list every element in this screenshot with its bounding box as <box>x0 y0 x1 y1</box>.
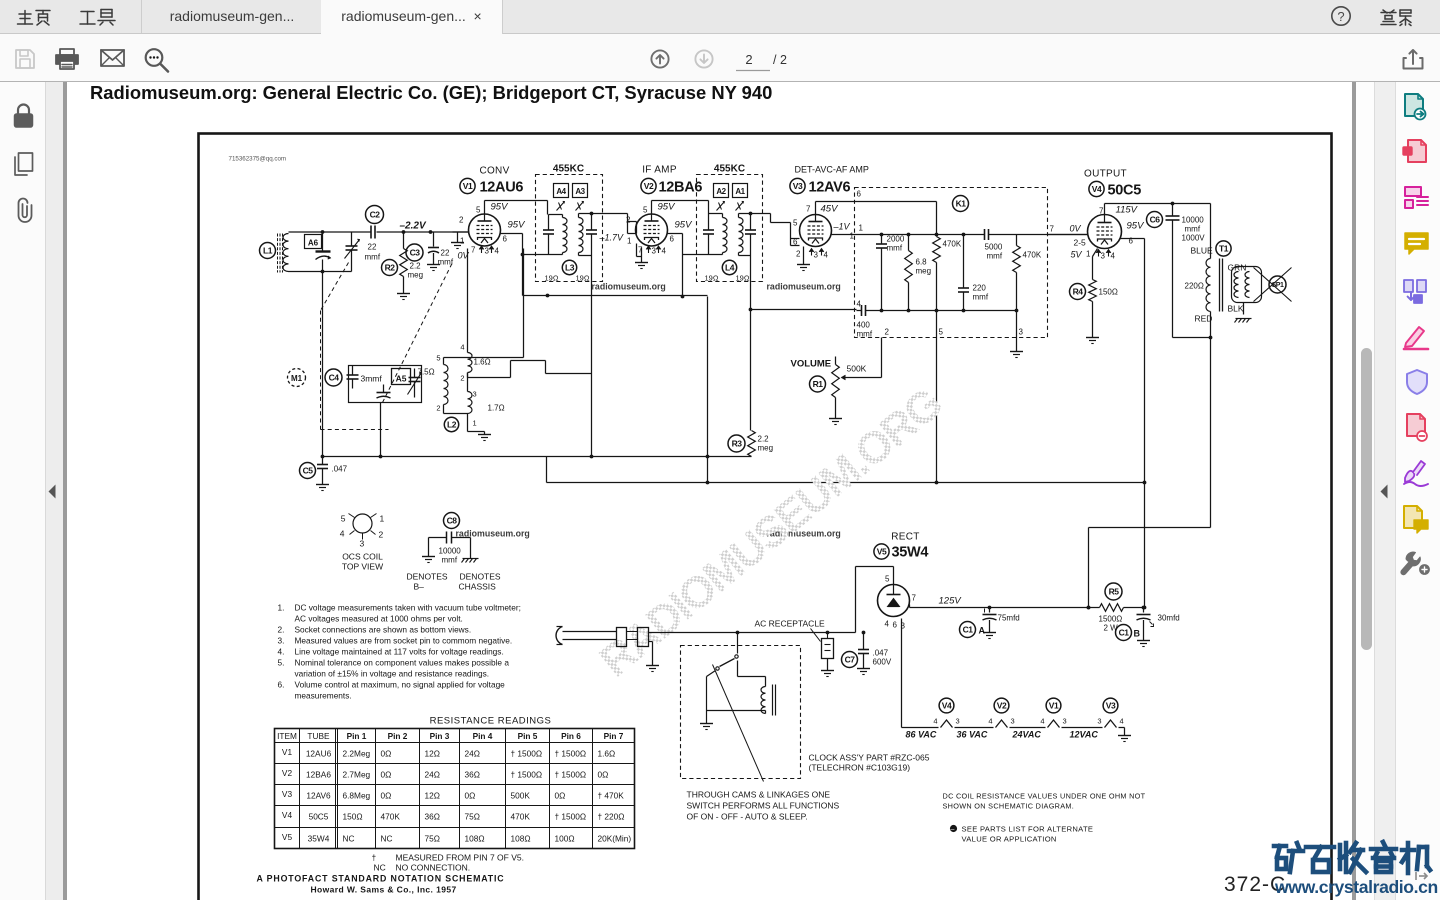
wire C6 bottom to B+ <box>1173 336 1213 340</box>
radiomuseum.org watermark text <box>456 529 530 539</box>
tube label V2 title <box>642 165 677 176</box>
resistor designator R2 <box>382 260 398 276</box>
wire B+ horizontal 95V line <box>523 294 708 298</box>
table footnote dagger <box>372 853 524 863</box>
wire V2 plate to IF2 <box>652 201 709 215</box>
wire A5 bottom to bus <box>380 403 382 457</box>
V3 pin1 label <box>850 232 855 241</box>
V1 pin7 label <box>471 246 476 255</box>
V2 pin2 label <box>626 216 631 225</box>
schematic border frame <box>199 134 1332 900</box>
coil IF2 secondary winding <box>739 214 751 256</box>
wire V4 plate top <box>1105 202 1211 215</box>
footer PHOTOFACT <box>257 874 505 884</box>
trimmer arrow A4 <box>557 201 565 210</box>
tool icon organize pages <box>1404 280 1426 303</box>
IF2 winding resistance 19ohm left <box>705 274 719 283</box>
heater string ground <box>1118 728 1131 742</box>
heater designator V3 <box>1103 698 1118 713</box>
resistor R5 1500ohm <box>1100 604 1146 612</box>
V3 pin4 label <box>824 251 829 260</box>
V1 grid ground <box>451 232 464 249</box>
page down icon disabled <box>695 50 712 67</box>
tool icon export pdf <box>1405 94 1426 120</box>
C8 B- leg <box>422 538 435 563</box>
K1 pin2 label <box>885 328 890 337</box>
K1 pin5 label <box>939 328 944 337</box>
trimmer cap A5 <box>377 385 391 399</box>
print icon <box>56 49 78 69</box>
capacitor IF1 primary <box>543 215 554 255</box>
V2 pin4 label <box>662 247 667 256</box>
resistor R2 2.2meg <box>400 232 423 294</box>
page up icon <box>651 50 668 67</box>
wire screen bus vertical <box>1143 239 1147 610</box>
antenna coil L1 winding <box>283 234 289 272</box>
IF transformer T-1 dashed box <box>536 175 603 282</box>
osc coil tap 2 <box>460 361 510 383</box>
footer Howard Sams <box>311 885 457 895</box>
heading text of PDF <box>90 82 850 104</box>
trimmer arrow A1 <box>736 201 744 210</box>
V2 plate voltage 95V <box>658 202 677 213</box>
tool icon certificates <box>1404 461 1428 486</box>
oscillator coil 7.5ohm <box>436 354 448 405</box>
osc coil pin1 ground <box>468 414 492 441</box>
resistor 470K second <box>1013 235 1042 313</box>
wire V5 heater down <box>901 619 903 728</box>
trimmer A4 box <box>554 184 569 198</box>
email icon <box>101 50 124 66</box>
lock icon <box>15 105 33 128</box>
capacitor designator C1B <box>1116 625 1141 641</box>
heater pin labels V2 <box>988 717 1014 726</box>
trimmer arrow A3 <box>576 201 584 210</box>
V3 pin5 label <box>793 219 798 228</box>
V4 pin6 label <box>1129 237 1134 246</box>
wire V2 grid loop <box>628 222 637 234</box>
tube designator V5 <box>874 544 889 559</box>
capacitor C1B 30mfd <box>1137 608 1180 647</box>
trimmer A2 box <box>714 184 729 198</box>
coil designator L2 <box>444 417 458 431</box>
tool icon send comments <box>1404 506 1428 533</box>
dashed gang diagonal upper <box>321 263 349 311</box>
V3 cathode ground <box>797 247 810 271</box>
V4 pin3 label <box>1101 252 1106 261</box>
wire V4 grid <box>1048 234 1088 236</box>
tube label V4 title <box>1084 169 1127 180</box>
tube type 12BA6 <box>659 180 703 196</box>
oscillator trimmer box <box>349 366 422 403</box>
V2 pin5 label <box>643 206 648 215</box>
tube type 50C5 <box>1108 183 1142 199</box>
tube type 12AV6 <box>809 180 851 196</box>
network designator K1 <box>953 196 969 212</box>
capacitor 400mmf <box>857 300 877 339</box>
radiomuseum.org watermark text <box>592 282 666 292</box>
antenna rod lines <box>278 234 283 273</box>
label 7.5ohm <box>418 368 435 377</box>
wire antenna rail bottom <box>289 270 352 274</box>
capacitor designator C3 <box>406 244 423 261</box>
resistor designator R5 <box>1105 583 1122 600</box>
speaker ground BLK <box>1235 303 1252 323</box>
V2 heater arrows <box>646 246 661 253</box>
speaker cone lines <box>1254 268 1292 302</box>
left collapse arrow <box>49 485 56 499</box>
wire IF1 primary bottom rail <box>523 254 549 256</box>
note DC coil resistance <box>943 792 1146 811</box>
label 12VAC <box>1070 730 1099 740</box>
trimmer A5 <box>392 369 411 385</box>
label OCS COIL <box>342 552 383 562</box>
capacitor designator C6 <box>1147 212 1163 228</box>
save icon disabled <box>16 50 34 68</box>
C8 chassis leg <box>462 538 479 563</box>
R1 wiper arrow <box>842 338 882 380</box>
V1 pin4 label <box>495 247 500 256</box>
dashed gang diagonal <box>383 263 453 403</box>
clock switch <box>707 633 739 691</box>
login text 登录 <box>1381 10 1411 26</box>
V3 heater arrows <box>809 249 824 256</box>
transformer designator T1 <box>1216 241 1231 256</box>
tool icon more tools <box>1401 552 1429 575</box>
right collapse arrow <box>1381 485 1388 499</box>
capacitor designator C1A <box>960 622 986 638</box>
V1 screen voltage 95V <box>508 220 527 231</box>
label 86 VAC <box>906 730 937 740</box>
tool icon protect <box>1407 370 1427 394</box>
tab text 工具 <box>80 10 115 26</box>
note see parts list <box>950 825 1093 844</box>
antenna coil designator L1 <box>260 243 276 259</box>
wire bus B- horizontal <box>323 455 752 459</box>
V2 pin6 label <box>670 235 675 244</box>
wire AVC line <box>751 309 857 311</box>
resistor R3 2.2meg <box>748 431 773 457</box>
wire IF2 primary rail to B+ <box>681 255 709 299</box>
capacitor designator C7 <box>842 652 858 668</box>
heater pin labels V4 <box>933 717 959 726</box>
capacitor designator C8 <box>444 513 460 529</box>
V5 output voltage 125V <box>939 596 963 607</box>
V3 pin3 label <box>814 251 819 260</box>
radiomuseum.org watermark text <box>767 529 841 539</box>
oscillator padder cap <box>408 369 422 398</box>
triode V3 <box>800 215 832 247</box>
V4 plate voltage 115V <box>1116 205 1139 216</box>
IF transformer T-2 dashed box <box>697 175 763 282</box>
AC receptacle symbol <box>811 629 834 659</box>
R4 ground <box>1086 338 1099 344</box>
IF2 winding resistance 19ohm right <box>736 274 750 283</box>
magnifier icon <box>146 49 168 71</box>
V1 pin1 label <box>460 237 465 246</box>
tube designator V2 <box>641 178 656 193</box>
tube designator V4 <box>1089 181 1104 196</box>
diagonal watermark RADIOMUSEUM.ORG <box>591 379 951 686</box>
V3 pin6 label <box>793 238 798 247</box>
OCS coil top view <box>349 514 377 540</box>
capacitor IF2 secondary <box>745 214 756 256</box>
wire B+ to T1 RED <box>1087 528 1211 610</box>
wire V3 plate up <box>816 202 937 215</box>
qq watermark text <box>229 156 287 163</box>
label CLOCK ASSY <box>809 753 930 773</box>
watermark chinese 矿石收音机 <box>1274 842 1430 873</box>
label VOLUME <box>791 359 832 370</box>
svg-text:www.crystalradio.cn: www.crystalradio.cn <box>1274 877 1438 897</box>
V5 pin labels 4 6 3 <box>885 620 906 631</box>
capacitor designator C4 <box>325 369 342 386</box>
label TOP VIEW <box>342 562 383 572</box>
oscillator coil 1.7ohm <box>468 373 505 414</box>
copy pages icon <box>15 153 33 175</box>
V3 pin7 label <box>806 205 811 214</box>
pentode V1 <box>469 214 501 246</box>
V2 cathode ground <box>635 244 648 269</box>
V4 pin1 label <box>1086 250 1091 259</box>
pentode V4 <box>1088 215 1122 249</box>
pentode V2 <box>636 214 668 246</box>
coil designator L4 <box>722 260 736 274</box>
heater designator V1 <box>1046 698 1061 713</box>
V1 plate voltage 95V <box>491 202 510 213</box>
V1 cathode voltage 0V <box>458 251 470 261</box>
wire IF1 secondary bottom to bus <box>590 256 594 459</box>
heater pin labels V1 <box>1040 717 1066 726</box>
V3 pin2 label <box>796 250 801 259</box>
help icon <box>1332 7 1350 25</box>
tube type 35W4 <box>892 545 929 561</box>
grid voltage -1.7V <box>599 233 625 243</box>
K1 pin1 label <box>859 224 864 233</box>
V4 grid voltage 0V <box>1070 224 1082 234</box>
capacitor C5 .047 <box>300 457 348 491</box>
V2 screen voltage 95V <box>675 220 694 231</box>
tool icon compress <box>1407 414 1427 441</box>
resistor designator R4 <box>1070 284 1086 300</box>
capacitor C7 .047 600V <box>857 631 892 675</box>
wire oscillator vertical <box>321 272 325 459</box>
wire volume feed <box>936 311 938 483</box>
paperclip icon <box>19 199 32 223</box>
coil IF1 primary winding <box>549 215 568 255</box>
tool icon edit pdf <box>1405 187 1428 208</box>
V4 pin4 label <box>1111 252 1116 261</box>
label 455KC first <box>553 164 584 175</box>
label 455KC second <box>714 164 745 175</box>
wire osc feedback right <box>511 361 592 374</box>
label 36 VAC <box>957 730 988 740</box>
V1 screen pin6 label <box>503 235 508 244</box>
T1 core <box>1220 259 1223 312</box>
coil IF2 primary winding <box>709 214 728 255</box>
wire AC line to V5 <box>649 631 856 635</box>
wire V2 screen down <box>668 234 683 255</box>
tool icon fill sign <box>1404 327 1428 349</box>
V4 voltage 5V <box>1071 250 1083 260</box>
clock pointer line <box>713 665 764 782</box>
wire B+ bus2 <box>547 457 1145 485</box>
tool icon create pdf <box>1403 140 1426 162</box>
clock motor core <box>773 685 776 716</box>
capacitor C2 22mmf <box>365 226 381 262</box>
resistor R4 cathode <box>1089 249 1098 338</box>
wire K1 to V4 grid <box>1017 225 1089 235</box>
resistor 470K first <box>933 202 962 313</box>
capacitor 5000mmf <box>937 229 1017 261</box>
K1 ground <box>1010 311 1023 358</box>
wire V3 pin6 loop <box>791 223 800 246</box>
capacitor C4 3mmf <box>347 366 383 389</box>
wire V4 screen right <box>1121 238 1145 240</box>
K1 pin3 label <box>1019 328 1024 337</box>
clock motor coil <box>707 661 766 714</box>
detector network dashed box K1 <box>855 188 1048 338</box>
wire osc grid <box>444 249 524 358</box>
cursor icon <box>1416 872 1427 880</box>
IF1 winding resistance 19ohm left <box>545 274 559 283</box>
table title <box>430 716 552 727</box>
potentiometer R1 500K <box>832 357 867 411</box>
label 24VAC <box>1012 730 1042 740</box>
tool icon comment <box>1405 233 1428 254</box>
speaker voice coil <box>1245 272 1249 298</box>
tube designator V3 <box>790 178 805 193</box>
motor designator M1 dashed <box>288 369 306 387</box>
R1 ground <box>829 411 842 425</box>
R4 value 150ohm <box>1099 288 1118 297</box>
interlock ground <box>646 642 659 672</box>
resistance readings table <box>275 729 635 849</box>
coil IF1 secondary winding <box>579 214 592 256</box>
T1 primary resistance 220ohm <box>1185 282 1204 291</box>
wire V1 plate to IF1 <box>485 201 548 215</box>
page number 372-C <box>1224 873 1286 896</box>
tube label V1 title <box>479 166 509 177</box>
heater string wire <box>902 720 1125 728</box>
output transformer T1 primary <box>1206 204 1211 528</box>
V2 pin3 label <box>652 247 657 256</box>
V1 pin5 label <box>476 206 481 215</box>
label DENOTES CHASSIS <box>459 572 501 592</box>
wire K1 bottom row <box>877 310 1017 312</box>
V3 plate voltage 45V <box>821 204 840 215</box>
interlock connector <box>617 628 649 647</box>
oscillator coil 1.6ohm <box>460 249 490 373</box>
page number input <box>736 52 787 71</box>
capacitor designator C2 <box>366 206 384 224</box>
clock assembly dashed box <box>681 646 801 779</box>
V2 pin1 label <box>627 237 632 246</box>
label BLK <box>1228 304 1244 314</box>
wire IF1 secondary out <box>590 212 637 234</box>
wire antenna rail top <box>289 230 469 234</box>
potentiometer designator R1 <box>810 376 826 392</box>
tube designator V1 <box>460 178 475 193</box>
share icon <box>1404 50 1423 69</box>
V5 plate loop box <box>856 567 894 633</box>
osc coil pin2 <box>436 404 467 414</box>
capacitor C8 10000mmf <box>429 532 471 565</box>
receptacle ground <box>821 631 834 677</box>
dashed gang line horizontal <box>321 429 389 431</box>
notes list <box>278 603 521 701</box>
tube label V5 title <box>891 532 919 543</box>
label AC RECEPTACLE <box>755 619 826 629</box>
wire V1 grid entry <box>453 231 469 233</box>
tab text 主页 <box>18 11 51 26</box>
wire B+ right segment <box>706 297 710 483</box>
V3 grid voltage -1V <box>833 222 851 232</box>
V2 pin7 label <box>638 246 643 255</box>
V4 screen voltage 95V <box>1127 221 1146 232</box>
wire IF2 secondary out to V3 <box>749 212 791 223</box>
rectifier tube V5 <box>878 585 910 617</box>
capacitor 2000mmf <box>876 233 905 313</box>
trimmer arrow A2 <box>717 201 725 210</box>
speaker designator SP1 <box>1269 276 1286 293</box>
tuning capacitor main <box>345 232 360 272</box>
radiomuseum.org watermark text <box>767 282 841 292</box>
capacitor C3 22mmf <box>427 232 454 271</box>
dashed gang line vertical <box>320 311 322 430</box>
heater designator V4 <box>939 698 954 713</box>
capacitor IF2 primary <box>703 214 714 255</box>
R2 ground <box>397 294 410 300</box>
trimmer A1 box <box>733 184 748 198</box>
V1 heater arrows <box>479 246 494 253</box>
V4 cathode label 2-5 <box>1074 238 1087 248</box>
capacitor C1A 75mfd <box>983 608 1020 639</box>
capacitor 220mmf <box>958 233 989 313</box>
capacitor C6 10000mmf <box>1166 204 1206 338</box>
watermark url <box>1274 877 1438 897</box>
wire IF2 secondary bottom AVC <box>749 256 753 431</box>
resistor 6.8meg <box>905 233 931 313</box>
IF1 winding resistance 19ohm right <box>576 274 590 283</box>
wire K1 row <box>877 234 937 236</box>
resistor designator R3 <box>728 435 745 452</box>
adjustable core A6 <box>305 235 322 249</box>
label GRN <box>1228 263 1247 273</box>
grid voltage -2.2V <box>400 221 427 232</box>
heater pin labels V3 <box>1097 717 1123 726</box>
heater designator V2 <box>994 698 1009 713</box>
V4 heater arrows <box>1096 250 1111 257</box>
capacitor IF1 secondary <box>586 214 597 256</box>
wire V3 pin1 to detector <box>832 234 877 236</box>
V4 pin7 label <box>1099 207 1104 216</box>
R5 value <box>1099 615 1123 633</box>
antenna trimmer cap <box>316 232 331 272</box>
V1 pin3 label <box>485 247 490 256</box>
label RED <box>1195 314 1213 324</box>
coil designator L3 <box>562 260 576 274</box>
AC plug <box>556 627 616 645</box>
T1 secondary winding <box>1234 272 1239 298</box>
tube label V3 title <box>795 165 869 175</box>
clock ground <box>700 711 713 730</box>
label DENOTES B- <box>407 572 448 592</box>
trimmer A3 box <box>573 184 588 198</box>
wire V5 cathode 125V line <box>910 605 1145 610</box>
V5 pin5 label <box>885 575 890 584</box>
label BLUE <box>1191 246 1214 256</box>
